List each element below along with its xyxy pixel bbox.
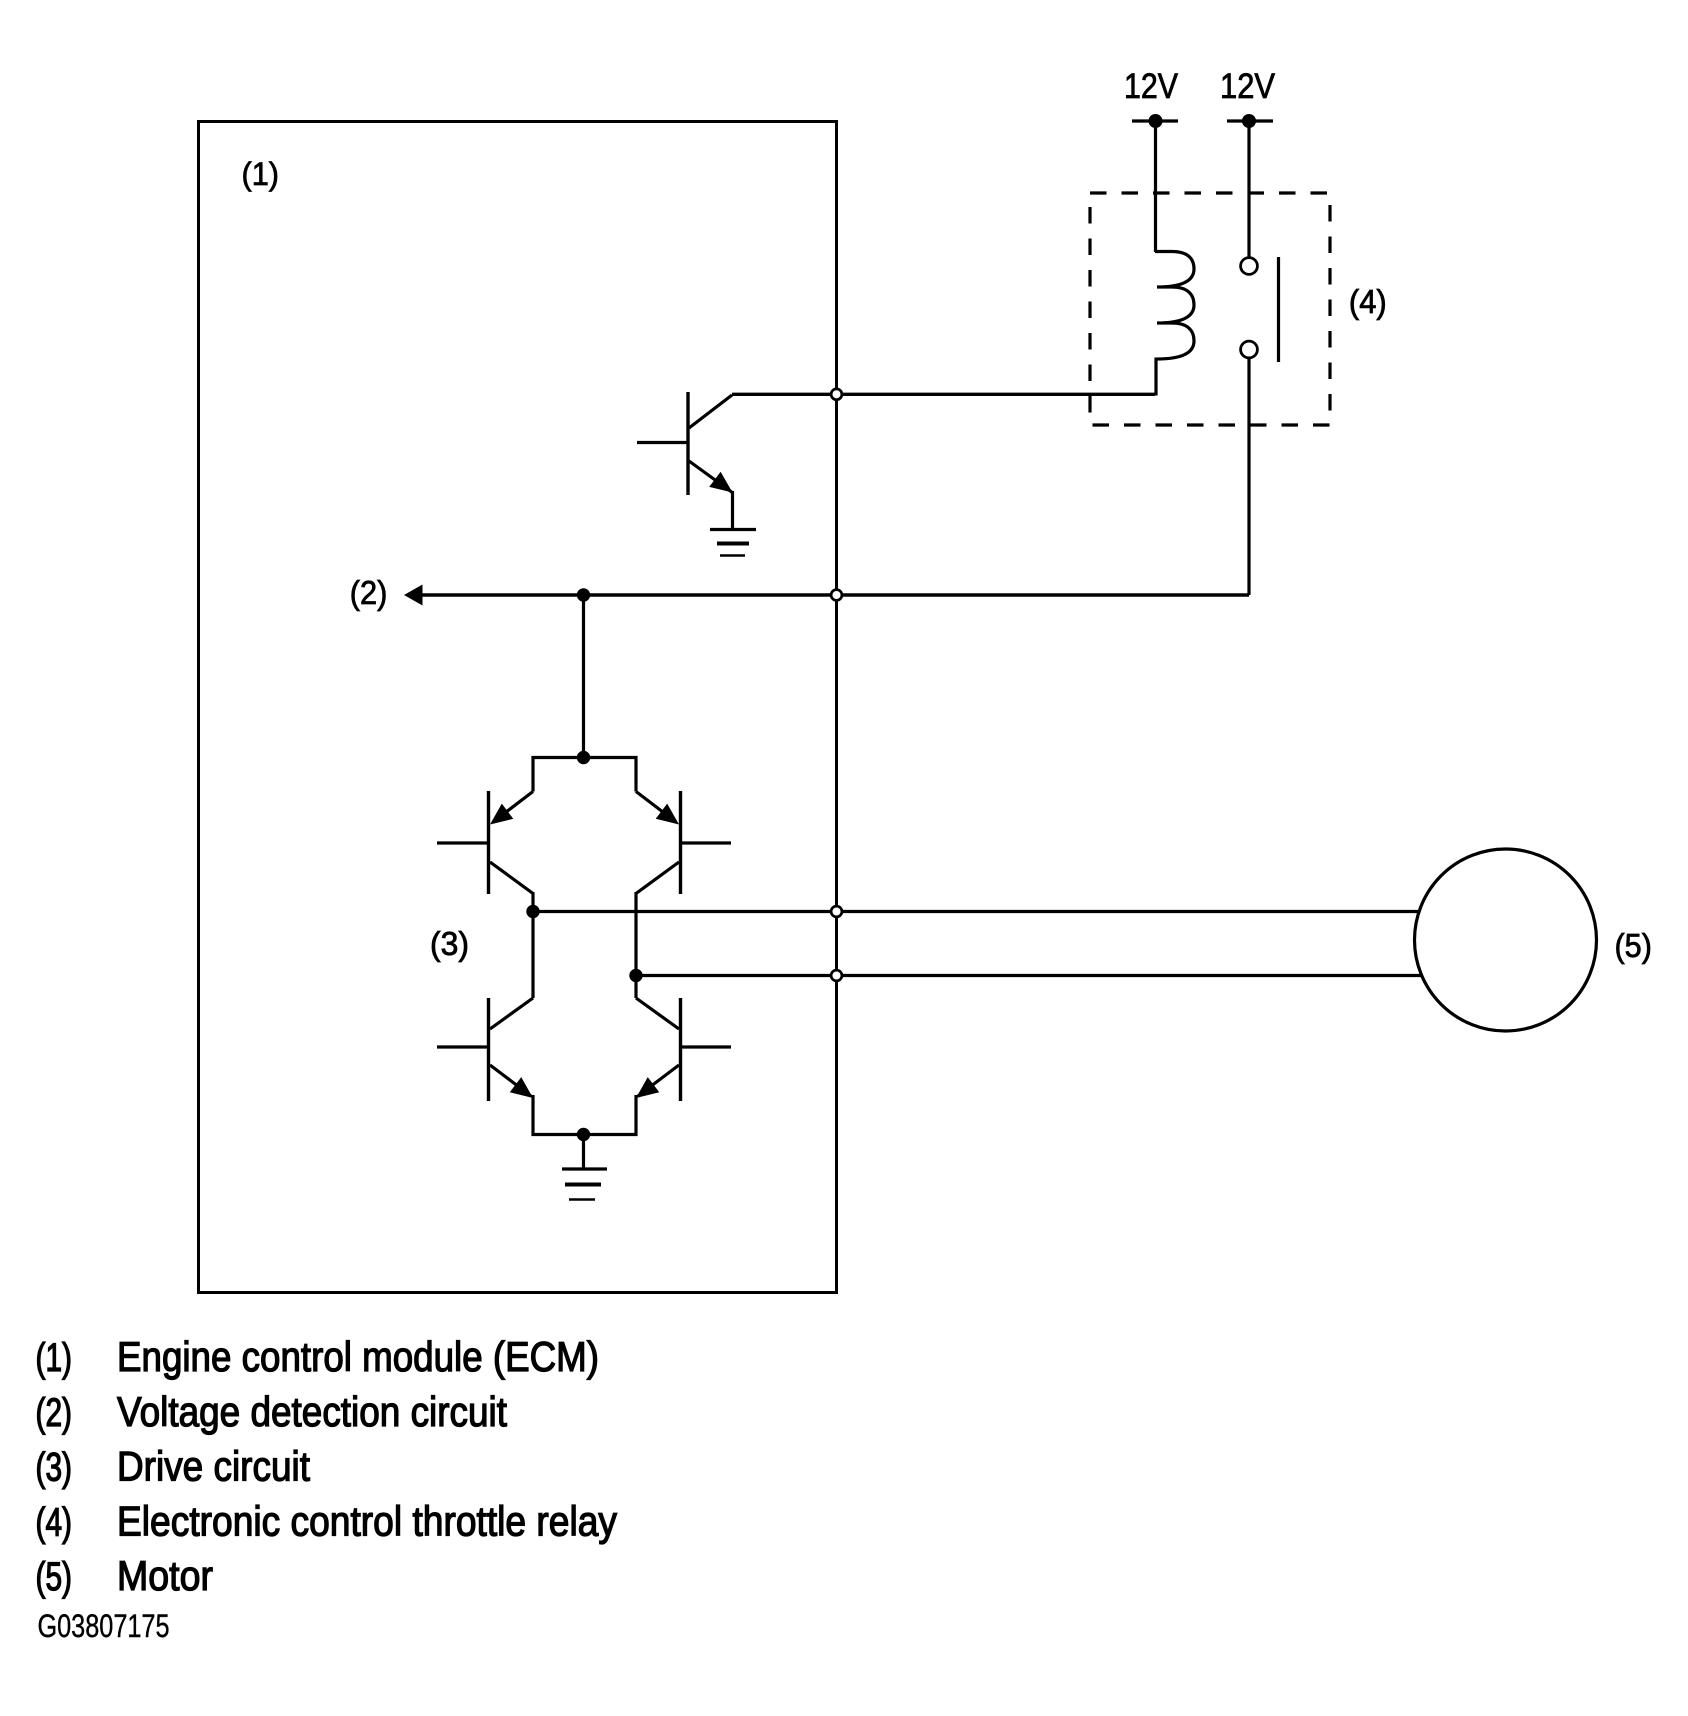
wire motor line A inside ECM bbox=[533, 910, 837, 913]
transistor Q5 collector diagonal bbox=[636, 998, 679, 1029]
svg-text:Motor: Motor bbox=[117, 1552, 213, 1599]
transistor Q3 emitter diagonal bbox=[636, 792, 676, 823]
wire Q1 emitter down bbox=[731, 491, 734, 530]
wire from node2 down to H-bridge bbox=[582, 595, 585, 758]
wire Q4 base lead bbox=[437, 1045, 488, 1048]
svg-text:Voltage detection circuit: Voltage detection circuit bbox=[117, 1388, 507, 1435]
transistor Q2 emitter arrow bbox=[484, 804, 513, 832]
transistor Q4 emitter diagonal bbox=[490, 1065, 531, 1096]
wire motor line A outside bbox=[837, 910, 1421, 913]
wire bottom rail to ground bbox=[582, 1135, 585, 1170]
svg-text:(4): (4) bbox=[36, 1501, 73, 1545]
wire coil bottom lead bbox=[1154, 358, 1157, 396]
ground G2 bbox=[562, 1169, 607, 1200]
transistor Q1 bar bbox=[686, 392, 689, 495]
wire Q2 collector down bbox=[531, 892, 534, 912]
wire node2 line bbox=[419, 593, 1249, 597]
ECM box U1 bbox=[199, 122, 837, 1293]
svg-text:(2): (2) bbox=[350, 574, 388, 611]
svg-text:(4): (4) bbox=[1349, 283, 1387, 320]
ground G1 bbox=[710, 530, 756, 556]
wire Q1 collector to relay coil node bbox=[732, 393, 1155, 396]
svg-text:(1): (1) bbox=[242, 156, 280, 192]
wire H-bridge top rail bbox=[533, 758, 636, 792]
transistor Q1 emitter diagonal bbox=[689, 461, 733, 493]
wire Q2 base lead bbox=[437, 841, 488, 844]
wire motor line B outside bbox=[837, 974, 1423, 977]
transistor Q1 collector diagonal bbox=[689, 395, 732, 428]
transistor Q3 bar bbox=[679, 791, 682, 894]
wire Q5 base lead bbox=[681, 1045, 731, 1048]
svg-text:(1): (1) bbox=[36, 1336, 73, 1380]
transistor Q5 emitter arrow bbox=[630, 1077, 659, 1105]
wire 12V #2 down to contact bbox=[1247, 121, 1250, 257]
connector pin node B ((2) line) bbox=[831, 590, 842, 601]
svg-text:Engine control module (ECM): Engine control module (ECM) bbox=[117, 1333, 599, 1380]
svg-text:12V: 12V bbox=[1124, 67, 1179, 106]
svg-text:(5): (5) bbox=[36, 1555, 73, 1599]
relay dashed box (4) bbox=[1090, 193, 1330, 425]
transistor Q4 emitter arrow bbox=[510, 1077, 539, 1105]
svg-text:(2): (2) bbox=[36, 1391, 73, 1435]
relay coil K1 bbox=[1155, 252, 1194, 360]
svg-text:Electronic control throttle re: Electronic control throttle relay bbox=[117, 1498, 617, 1545]
wire Q5 emitter to bottom rail bbox=[584, 1095, 637, 1135]
connector pin node D (motor B) bbox=[831, 970, 842, 981]
junction dot node 2 bbox=[577, 588, 590, 601]
transistor Q3 emitter arrow bbox=[656, 804, 685, 832]
transistor Q2 bar bbox=[487, 791, 490, 894]
relay switch blade bbox=[1277, 257, 1280, 362]
transistor Q4 collector diagonal bbox=[490, 998, 533, 1029]
arrow head (2) bbox=[404, 585, 423, 606]
power tap 12V #1 bbox=[1132, 119, 1178, 122]
junction dot H-bridge bottom bbox=[577, 1128, 590, 1141]
wire Q4 emitter to bottom rail bbox=[533, 1095, 584, 1135]
transistor Q4 bar bbox=[487, 998, 490, 1101]
wire Q4 collector up bbox=[531, 912, 534, 999]
relay contact terminal top bbox=[1241, 258, 1258, 275]
wire Q1 base lead bbox=[637, 441, 688, 444]
transistor Q2 emitter diagonal bbox=[493, 792, 533, 823]
motor M circle (5) bbox=[1415, 849, 1597, 1031]
svg-text:(5): (5) bbox=[1615, 927, 1652, 964]
transistor Q2 collector diagonal bbox=[490, 862, 533, 894]
transistor Q3 collector diagonal bbox=[636, 862, 679, 894]
wire motor line B inside ECM bbox=[636, 974, 837, 977]
wire Q3 collector down bbox=[634, 892, 637, 976]
junction dot motor line B bbox=[629, 969, 642, 982]
connector pin node A (coil line) bbox=[831, 389, 842, 400]
svg-text:(3): (3) bbox=[430, 925, 469, 962]
transistor Q1 emitter arrow bbox=[709, 472, 738, 500]
transistor Q5 emitter diagonal bbox=[638, 1065, 679, 1096]
connector pin node C (motor A) bbox=[831, 906, 842, 917]
transistor Q5 bar bbox=[679, 998, 682, 1101]
wire contact bottom down to node2 line bbox=[1247, 359, 1250, 596]
junction dot motor line A bbox=[526, 905, 539, 918]
wire Q5 collector up bbox=[634, 976, 637, 999]
svg-text:12V: 12V bbox=[1220, 67, 1276, 106]
junction dot H-bridge top bbox=[577, 751, 590, 764]
svg-text:Drive circuit: Drive circuit bbox=[117, 1443, 310, 1490]
power tap 12V #2 bbox=[1227, 119, 1273, 122]
svg-text:G03807175: G03807175 bbox=[38, 1607, 170, 1644]
wire Q3 base lead bbox=[681, 841, 731, 844]
wire 12V #1 down to coil bbox=[1154, 121, 1157, 252]
relay contact terminal bottom bbox=[1241, 341, 1258, 358]
svg-text:(3): (3) bbox=[36, 1446, 73, 1490]
